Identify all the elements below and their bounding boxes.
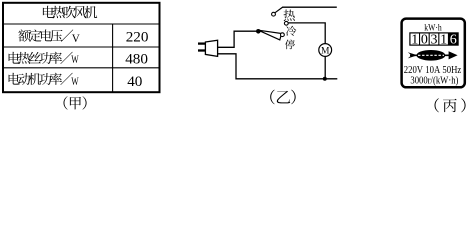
wire: 冷 contact to motor branch <box>288 23 325 44</box>
table 甲: column divider <box>112 24 114 92</box>
wire: 热 contact diagonal up to top rail <box>275 7 283 13</box>
meter: arrow head <box>449 51 458 59</box>
svg-text:1: 1 <box>440 32 447 47</box>
svg-text:0: 0 <box>421 32 428 47</box>
meter: disc tail (left fletch) <box>408 52 418 58</box>
caption (乙) <box>270 90 274 105</box>
meter: disc shaft <box>410 54 450 56</box>
wire: plug upper terminal to switch pivot <box>218 31 258 47</box>
svg-text:40: 40 <box>127 73 143 90</box>
wire: plug lower terminal to bottom rail <box>218 54 338 79</box>
switch S1: blade triangle (at 停 position) <box>258 30 281 40</box>
caption (甲) <box>63 96 67 109</box>
table 甲: row separator 3 <box>2 67 161 69</box>
wire: motor to bottom rail <box>324 56 326 78</box>
meter: white dashed line across disc <box>418 54 444 56</box>
label 冷 <box>286 26 296 36</box>
wire: top rail <box>283 6 337 8</box>
svg-text:6: 6 <box>450 32 457 47</box>
table 甲: header text 电热吹风机 <box>43 6 54 18</box>
svg-text:3: 3 <box>431 32 438 47</box>
motor M1: circle <box>319 44 332 57</box>
svg-text:3000r/(kW·h): 3000r/(kW·h) <box>410 76 458 87</box>
table 甲: row4 label 电动机功率/W <box>9 73 20 85</box>
svg-text:220V 10A 50Hz: 220V 10A 50Hz <box>404 65 462 76</box>
meter: rounded thick border <box>402 19 465 88</box>
table 甲: row2 label 额定电压/V <box>18 29 30 41</box>
svg-text:kW·h: kW·h <box>424 22 442 32</box>
plug P1: body <box>205 40 217 56</box>
table 甲: row separator 1 <box>2 23 161 25</box>
meter: black cell behind last digit <box>448 33 458 44</box>
label 停 <box>285 40 295 50</box>
switch S1: contact 热 circle <box>272 12 276 16</box>
switch S1: contact 停 circle at blade tip <box>281 33 285 37</box>
table 甲: row3 label 电热丝功率/W <box>9 52 20 64</box>
meter: digit cell dividers <box>419 33 421 45</box>
svg-text:1: 1 <box>411 32 418 47</box>
meter: digit window frame <box>410 33 458 45</box>
meter: spinning disc (filled lens) <box>417 50 446 61</box>
svg-text:220: 220 <box>126 28 149 45</box>
svg-text:W: W <box>71 54 79 66</box>
svg-text:V: V <box>72 33 80 45</box>
svg-text:M: M <box>321 47 330 57</box>
table 甲: outer border <box>3 3 160 92</box>
plug P1: lower prong <box>198 49 206 51</box>
caption (丙) <box>435 98 439 112</box>
svg-text:W: W <box>71 76 79 88</box>
plug P1: upper prong <box>198 42 206 44</box>
label 热 <box>283 10 294 21</box>
switch S1: pivot dot <box>256 29 261 34</box>
junction dot on bottom rail <box>323 77 327 81</box>
svg-text:480: 480 <box>125 51 148 68</box>
table 甲: row separator 2 <box>2 46 161 48</box>
switch S1: contact 冷 circle <box>284 21 288 25</box>
